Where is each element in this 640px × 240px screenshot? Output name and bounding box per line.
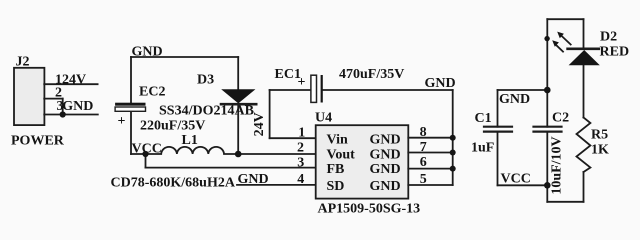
- svg-text:FB: FB: [327, 162, 345, 177]
- svg-text:CD78-680K/68uH2A: CD78-680K/68uH2A: [111, 175, 236, 190]
- svg-text:C1: C1: [475, 111, 492, 126]
- svg-text:POWER: POWER: [11, 134, 65, 149]
- svg-text:8: 8: [420, 125, 427, 140]
- svg-text:GND: GND: [425, 76, 456, 91]
- svg-text:6: 6: [420, 155, 427, 170]
- svg-text:2: 2: [297, 140, 304, 155]
- svg-text:3: 3: [297, 155, 304, 170]
- svg-text:+: +: [118, 114, 126, 129]
- svg-text:SS34/DO214AB: SS34/DO214AB: [159, 104, 254, 119]
- svg-text:VCC: VCC: [501, 171, 531, 186]
- svg-text:U4: U4: [315, 110, 332, 125]
- svg-text:L1: L1: [182, 133, 198, 148]
- svg-text:10uF/10V: 10uF/10V: [550, 136, 565, 194]
- svg-text:VCC: VCC: [132, 142, 162, 157]
- svg-text:220uF/35V: 220uF/35V: [140, 118, 205, 133]
- svg-text:470uF/35V: 470uF/35V: [339, 67, 404, 82]
- svg-text:RED: RED: [600, 44, 630, 59]
- svg-text:+: +: [298, 75, 306, 90]
- svg-text:GND: GND: [370, 148, 401, 163]
- svg-text:GND: GND: [370, 179, 401, 194]
- svg-text:R5: R5: [591, 127, 608, 142]
- svg-text:AP1509-50SG-13: AP1509-50SG-13: [318, 201, 421, 216]
- svg-text:5: 5: [420, 172, 427, 187]
- svg-text:EC2: EC2: [139, 84, 165, 99]
- svg-text:SD: SD: [327, 179, 345, 194]
- svg-text:24V: 24V: [252, 112, 267, 136]
- svg-text:C2: C2: [552, 110, 569, 125]
- svg-text:D3: D3: [197, 73, 214, 88]
- svg-text:GND: GND: [132, 44, 163, 59]
- svg-text:Vout: Vout: [327, 148, 356, 163]
- svg-text:1uF: 1uF: [471, 140, 494, 155]
- svg-text:1K: 1K: [591, 142, 609, 157]
- svg-text:D2: D2: [600, 29, 617, 44]
- svg-text:GND: GND: [370, 132, 401, 147]
- svg-text:J2: J2: [16, 55, 30, 70]
- svg-text:GND: GND: [370, 162, 401, 177]
- svg-text:4: 4: [297, 172, 304, 187]
- svg-text:7: 7: [420, 140, 427, 155]
- svg-text:GND: GND: [238, 172, 269, 187]
- svg-text:Vin: Vin: [327, 132, 348, 147]
- svg-text:GND: GND: [62, 99, 93, 114]
- svg-text:GND: GND: [499, 92, 530, 107]
- svg-text:1: 1: [298, 125, 305, 140]
